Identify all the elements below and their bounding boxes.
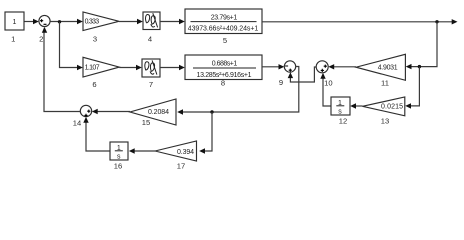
svg-text:8: 8 — [221, 78, 225, 87]
junction node feedback branch — [418, 65, 421, 68]
integrator block 16 — [110, 142, 128, 160]
svg-text:s: s — [117, 153, 121, 160]
svg-text:0.333: 0.333 — [85, 19, 100, 26]
svg-text:43973.66s²+409.24s+1: 43973.66s²+409.24s+1 — [188, 26, 259, 33]
svg-text:0.688s+1: 0.688s+1 — [212, 61, 238, 68]
svg-text:4: 4 — [148, 35, 152, 44]
svg-text:9: 9 — [279, 78, 283, 87]
svg-text:1: 1 — [13, 19, 17, 26]
svg-text:12: 12 — [339, 116, 347, 125]
svg-text:3: 3 — [93, 35, 97, 44]
svg-text:2: 2 — [39, 35, 43, 44]
wire gain11 to sum10 — [330, 66, 356, 68]
svg-text:13: 13 — [381, 116, 389, 125]
wire gain3 to block4 — [119, 21, 141, 23]
svg-text:17: 17 — [177, 161, 185, 170]
sum junction 9 — [284, 61, 295, 72]
saturation-like block 7 — [142, 59, 160, 77]
saturation-like block 4 — [143, 12, 160, 30]
wire sum10 output to sum9 bottom — [290, 67, 316, 82]
wire gain6 to block7 — [119, 67, 140, 69]
constant block 1 — [5, 12, 24, 30]
svg-text:23.79s+1: 23.79s+1 — [211, 14, 238, 21]
junction node bottom feedback — [210, 110, 213, 113]
wire gain17 to block16 — [131, 150, 156, 152]
svg-text:s: s — [338, 108, 342, 115]
svg-text:4.9031: 4.9031 — [378, 65, 398, 72]
transfer function block 5 — [185, 9, 262, 34]
gain 6 — [83, 57, 119, 77]
svg-text:7: 7 — [149, 80, 153, 89]
wire sum14 output feedback up to sum2 — [44, 29, 80, 112]
wire gain15 to sum14 — [94, 111, 131, 113]
svg-text:10: 10 — [324, 78, 332, 87]
svg-text:6: 6 — [92, 80, 96, 89]
svg-text:0.0215: 0.0215 — [381, 104, 403, 111]
svg-text:1.107: 1.107 — [85, 65, 100, 72]
junction node on output line — [435, 20, 438, 23]
gain 11 — [356, 54, 405, 80]
wire block4 to block5 — [160, 21, 183, 23]
sum junction 10 — [316, 61, 328, 73]
gain 3 — [83, 12, 119, 31]
svg-text:5: 5 — [223, 36, 227, 45]
wire branch down to gain6 — [60, 22, 82, 68]
sum junction 14 — [80, 105, 91, 116]
svg-text:11: 11 — [381, 78, 389, 87]
wire gain13 to block12 — [352, 105, 363, 107]
wire block8 to sum9 — [262, 66, 283, 68]
wire block7 to block8 — [160, 67, 183, 69]
wire block1 to sum2 — [24, 21, 37, 23]
svg-text:0.394: 0.394 — [177, 149, 194, 156]
wire branch down to gain17 — [201, 112, 212, 151]
svg-text:16: 16 — [114, 161, 122, 170]
main output wire from block5 — [262, 21, 455, 23]
integrator block 12 — [331, 97, 350, 115]
svg-text:1: 1 — [11, 35, 15, 44]
wire sum9 output down to bottom feedback line — [179, 67, 299, 113]
sum junction 2 — [39, 15, 50, 26]
wire output branch down to gain11 — [408, 22, 438, 67]
svg-text:14: 14 — [73, 119, 81, 128]
gain 17 — [155, 141, 197, 161]
wire sum2 to gain3 — [50, 21, 81, 23]
svg-text:15: 15 — [142, 118, 150, 127]
gain 15 — [130, 99, 176, 125]
transfer function block 8 — [185, 55, 262, 80]
svg-text:0.2084: 0.2084 — [148, 109, 169, 116]
wire block16 to sum14 bottom — [86, 119, 110, 152]
gain 13 — [363, 97, 405, 116]
wire block12 to sum10 bottom — [323, 75, 331, 107]
junction node after sum2 — [58, 20, 61, 23]
wire branch down to gain13 — [407, 67, 419, 106]
